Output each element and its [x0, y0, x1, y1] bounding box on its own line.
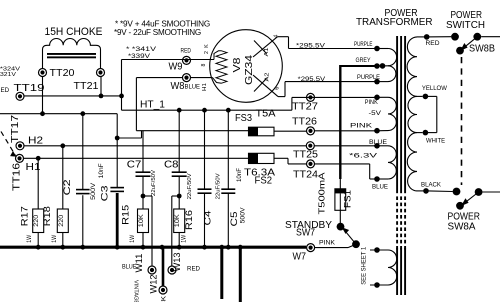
svg-text:R18: R18 — [41, 206, 52, 226]
svg-text:K: K — [204, 44, 210, 48]
svg-text:RED: RED — [426, 40, 441, 47]
svg-text:22uF/50V: 22uF/50V — [215, 173, 221, 200]
svg-text:RED: RED — [0, 87, 10, 94]
svg-text:FS1: FS1 — [342, 190, 353, 208]
svg-text:PURPLE: PURPLE — [354, 41, 373, 48]
svg-text:220: 220 — [59, 214, 65, 227]
svg-text:TT20: TT20 — [50, 68, 76, 79]
svg-text:10K: 10K — [175, 214, 181, 227]
svg-text:TT25: TT25 — [293, 150, 319, 161]
svg-text:1W: 1W — [130, 235, 136, 243]
svg-text:C2: C2 — [61, 179, 72, 195]
svg-text:C4: C4 — [202, 211, 213, 226]
svg-text:8: 8 — [201, 63, 207, 66]
svg-text:TRANSFORMER: TRANSFORMER — [356, 17, 433, 28]
svg-text:22uF/50V: 22uF/50V — [151, 169, 157, 196]
svg-text:6: 6 — [274, 87, 280, 90]
svg-text:PINK: PINK — [319, 239, 336, 246]
svg-text:10nF: 10nF — [237, 168, 243, 182]
svg-text:PINK: PINK — [365, 99, 379, 106]
svg-text:W8: W8 — [171, 81, 186, 92]
svg-text:R16: R16 — [183, 210, 194, 230]
svg-text:TT16: TT16 — [12, 162, 23, 191]
svg-text:220: 220 — [34, 214, 40, 227]
svg-text:*295.5V: *295.5V — [296, 42, 326, 49]
svg-text:T500mA: T500mA — [316, 172, 326, 215]
svg-text:TT26: TT26 — [292, 117, 318, 128]
svg-text:500V: 500V — [241, 207, 247, 223]
svg-text:BLUE: BLUE — [369, 139, 387, 146]
svg-text:*9V - 22uF SMOOTHING: *9V - 22uF SMOOTHING — [114, 28, 201, 37]
svg-text:22uF/50V: 22uF/50V — [187, 173, 193, 200]
svg-text:A1: A1 — [264, 48, 270, 57]
svg-text:500V: 500V — [91, 183, 97, 200]
svg-text:SWITCH: SWITCH — [446, 20, 485, 31]
svg-text:W13: W13 — [171, 253, 182, 272]
svg-text:2: 2 — [204, 51, 210, 54]
svg-text:PINK: PINK — [350, 123, 373, 130]
svg-text:4: 4 — [273, 35, 279, 38]
svg-text:FS2: FS2 — [255, 175, 273, 186]
svg-text:C5: C5 — [228, 212, 239, 227]
svg-text:SW8B: SW8B — [469, 43, 495, 54]
svg-text:1W: 1W — [52, 235, 58, 243]
svg-text:10nF: 10nF — [99, 163, 105, 178]
svg-text:R17: R17 — [19, 206, 30, 226]
svg-text:TT19: TT19 — [14, 83, 45, 94]
svg-text:T5A: T5A — [256, 108, 277, 119]
svg-text:VINTAGE: VINTAGE — [133, 280, 139, 302]
svg-text:-5V: -5V — [369, 110, 383, 117]
svg-text:BLUE: BLUE — [185, 83, 201, 90]
svg-text:GREY: GREY — [356, 57, 371, 64]
svg-text:SW7: SW7 — [296, 228, 315, 239]
svg-text:C8: C8 — [164, 160, 179, 171]
svg-text:BLACK: BLACK — [421, 181, 442, 188]
svg-text:POWER: POWER — [451, 10, 483, 21]
svg-text:C7: C7 — [127, 160, 142, 171]
svg-text:1W: 1W — [27, 235, 33, 243]
svg-text:C3: C3 — [98, 185, 109, 201]
svg-text:YELLOW: YELLOW — [422, 85, 447, 92]
svg-text:15H CHOKE: 15H CHOKE — [45, 26, 103, 38]
svg-text:* *341V: * *341V — [126, 46, 157, 53]
svg-text:H1: H1 — [26, 162, 41, 173]
svg-text:W11: W11 — [133, 254, 144, 273]
svg-text:*6.3V: *6.3V — [349, 153, 379, 160]
svg-text:PURPLE: PURPLE — [357, 74, 380, 81]
svg-text:BLUE: BLUE — [372, 183, 388, 190]
svg-text:TT17: TT17 — [10, 115, 21, 143]
svg-text:HT_1: HT_1 — [140, 99, 165, 110]
svg-text:W7: W7 — [293, 252, 307, 263]
svg-text:W9: W9 — [169, 62, 183, 73]
svg-text:TT21: TT21 — [74, 81, 99, 92]
svg-text:SEE SHEET 1: SEE SHEET 1 — [360, 246, 367, 284]
svg-text:TT24: TT24 — [293, 170, 319, 181]
svg-text:WHITE: WHITE — [426, 137, 445, 144]
svg-text:H1: H1 — [202, 83, 208, 91]
svg-text:R15: R15 — [120, 205, 131, 225]
svg-text:TT27: TT27 — [292, 102, 318, 113]
svg-text:1W: 1W — [181, 235, 187, 243]
svg-text:*339V: *339V — [128, 53, 151, 60]
svg-text:V8: V8 — [232, 57, 243, 73]
svg-text:H2: H2 — [28, 136, 43, 147]
svg-text:GZ34: GZ34 — [244, 54, 255, 85]
svg-text:FS3: FS3 — [235, 113, 253, 124]
svg-text:A2: A2 — [265, 73, 271, 82]
svg-text:W12: W12 — [147, 275, 158, 294]
svg-text:RED: RED — [181, 47, 192, 54]
svg-text:*295.5V: *295.5V — [298, 76, 326, 83]
svg-text:321V: 321V — [0, 72, 16, 78]
svg-text:SW8A: SW8A — [448, 221, 476, 232]
svg-text:10K: 10K — [139, 214, 145, 227]
svg-text:RED: RED — [187, 266, 201, 273]
